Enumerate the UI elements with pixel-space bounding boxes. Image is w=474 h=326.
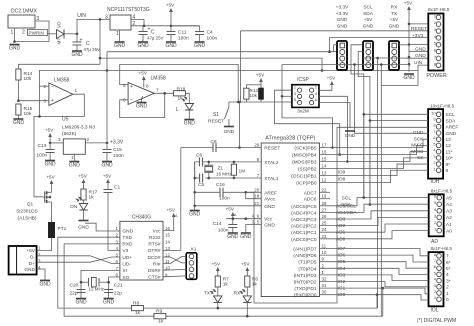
svg-text:C16: C16: [216, 182, 225, 188]
ground U5: [69, 161, 79, 163]
capacitor C6: [200, 157, 203, 166]
svg-text:23: 23: [322, 234, 327, 239]
junction: [369, 203, 372, 206]
svg-text:GND: GND: [337, 17, 348, 23]
svg-text:XI: XI: [122, 268, 127, 274]
svg-text:26: 26: [322, 214, 327, 219]
wire XTAL2: [203, 161, 262, 163]
wire R18 to LED: [186, 93, 190, 103]
svg-text:M7: M7: [57, 38, 62, 45]
svg-text:5: 5: [123, 83, 126, 88]
svg-text:3: 3: [44, 99, 47, 104]
svg-text:RESET: RESET: [264, 146, 280, 152]
connector POWER header 8x1F: [428, 14, 443, 71]
svg-text:3: 3: [105, 15, 108, 21]
svg-text:UD+: UD+: [122, 255, 132, 261]
wire UIN to POWER pin8: [418, 65, 428, 70]
wire pin2 stub: [43, 85, 49, 87]
svg-text:XO: XO: [122, 275, 129, 281]
svg-text:5: 5: [434, 270, 436, 275]
svg-text:10: 10: [322, 250, 327, 255]
svg-text:IO0: IO0: [338, 292, 346, 298]
svg-text:Vcc: Vcc: [153, 228, 162, 234]
svg-text:C1: C1: [114, 185, 120, 191]
wire IO4 to IOL: [320, 268, 429, 274]
diode VD M7: [57, 30, 65, 39]
resistor R18 1k: [173, 91, 185, 96]
svg-text:+: +: [80, 38, 83, 44]
svg-text:IO6: IO6: [338, 253, 346, 259]
svg-text:RI#: RI#: [153, 261, 161, 267]
svg-text:TX: TX: [391, 11, 398, 17]
wire CH340 gnd to ON gnd: [85, 223, 120, 231]
svg-text:1: 1: [75, 88, 78, 93]
svg-text:A0: A0: [446, 228, 452, 234]
svg-text:(AIN1)PD7: (AIN1)PD7: [293, 247, 317, 253]
junction: [363, 113, 366, 116]
junction: [408, 23, 411, 26]
ground C13: [45, 160, 55, 162]
junction: [408, 63, 411, 66]
ground S1: [224, 126, 234, 128]
wire pin4 to +5V rail: [131, 19, 144, 25]
svg-text:GND: GND: [114, 43, 126, 49]
svg-text:(INT0)PD2: (INT0)PD2: [294, 280, 317, 286]
power +5V arrow right: [408, 8, 410, 13]
capacitor C 47u 25V input: [76, 34, 78, 42]
svg-text:+5V: +5V: [364, 17, 373, 23]
svg-text:GND: GND: [189, 212, 201, 218]
wire bus to opamp1: [39, 71, 41, 87]
wire gnd rail left: [194, 162, 196, 206]
junction: [80, 281, 83, 284]
wire output to R18: [154, 92, 173, 94]
svg-text:14: 14: [322, 164, 327, 169]
svg-text:TXD: TXD: [122, 235, 132, 241]
wire U5 out +3.3V: [85, 142, 107, 144]
svg-text:GND: GND: [24, 267, 35, 273]
svg-text:RTS#: RTS#: [148, 242, 161, 248]
svg-text:2: 2: [322, 263, 325, 268]
wire IO0 to IOL: [320, 295, 429, 300]
svg-text:1: 1: [11, 30, 14, 36]
node UIN junction: [76, 33, 79, 36]
svg-text:25: 25: [322, 221, 327, 226]
wire +5V/GND vertical right: [408, 13, 410, 72]
svg-text:−: −: [51, 85, 54, 91]
wire IOREF: [409, 23, 428, 25]
header J +3.3V: [337, 41, 347, 70]
svg-text:7: 7: [434, 54, 436, 59]
wire PC1 to AD: [320, 224, 429, 232]
svg-text:(ICP)PB0: (ICP)PB0: [296, 181, 317, 187]
svg-text:CH340G: CH340G: [132, 215, 152, 221]
svg-text:AREF: AREF: [446, 125, 459, 131]
power +5V arrow RX: [246, 269, 248, 274]
wire RESET bus: [241, 30, 429, 32]
svg-text:A: A: [175, 214, 178, 218]
svg-text:+5V: +5V: [139, 71, 148, 76]
svg-text:100n: 100n: [37, 153, 48, 159]
svg-text:2: 2: [433, 160, 435, 165]
wire GND21: [195, 205, 262, 207]
junction: [193, 177, 196, 180]
svg-text:100n: 100n: [207, 36, 218, 42]
svg-text:UIN: UIN: [414, 60, 423, 66]
connector ICSP 3x2: [292, 85, 319, 108]
junction: [163, 92, 166, 95]
wire ICSP SCK stub: [282, 95, 292, 97]
svg-text:GND: GND: [75, 300, 87, 306]
svg-text:2: 2: [87, 137, 90, 142]
svg-text:DC2.1MMX: DC2.1MMX: [11, 9, 38, 15]
svg-text:1k: 1k: [252, 282, 258, 288]
svg-text:7: 7: [433, 129, 435, 134]
capacitor C4 100n: [171, 25, 200, 27]
capacitor C16: [220, 188, 223, 197]
svg-text:U5: U5: [62, 117, 69, 123]
svg-text:13: 13: [446, 137, 452, 143]
wire pin1 down: [14, 28, 16, 42]
svg-text:7: 7: [434, 258, 436, 263]
svg-text:100n: 100n: [218, 228, 229, 234]
crystal Z1 16 MHz: [208, 162, 210, 165]
svg-text:C20: C20: [70, 283, 79, 289]
svg-text:C11: C11: [178, 30, 187, 36]
svg-text:GND: GND: [71, 52, 83, 58]
svg-text:16: 16: [322, 150, 327, 155]
resistor 1M: [233, 162, 235, 164]
svg-text:22: 22: [322, 187, 327, 192]
capacitor C15 100n: [106, 143, 108, 150]
svg-text:(T0)PD4: (T0)PD4: [298, 266, 316, 272]
junction: [346, 160, 349, 163]
svg-text:R18: R18: [177, 87, 186, 93]
svg-text:(MISO)PB4: (MISO)PB4: [292, 153, 317, 159]
ground regulator: [115, 41, 125, 43]
ground crystal: [190, 210, 200, 212]
junction: [238, 101, 241, 104]
wire pin3 to gnd: [15, 21, 49, 42]
connector IOL 8x1F: [429, 252, 444, 306]
ground USB: [40, 279, 50, 281]
svg-text:0: 0: [446, 297, 449, 303]
wire D- to UD-: [37, 256, 120, 264]
wire R13 top: [245, 85, 247, 88]
svg-text:+3.3V: +3.3V: [336, 11, 349, 17]
svg-text:GND: GND: [45, 162, 57, 168]
wire reset to pin29: [239, 102, 241, 148]
svg-text:SDA: SDA: [341, 202, 352, 208]
svg-text:R9: R9: [156, 309, 162, 315]
svg-text:+5V: +5V: [78, 174, 87, 179]
ground R15: [13, 118, 23, 120]
svg-text:5*: 5*: [446, 266, 451, 272]
power +5V arrow U5: [49, 135, 51, 140]
wire DSR to X1: [163, 268, 186, 271]
svg-text:31: 31: [322, 283, 327, 288]
svg-text:PWRIN: PWRIN: [29, 30, 44, 35]
wire rail2: [166, 315, 383, 317]
wire DTR to C8: [180, 148, 182, 251]
svg-text:10k: 10k: [24, 76, 32, 82]
wire XTAL1: [205, 177, 261, 179]
wire reset cap to atmega: [216, 147, 239, 149]
svg-text:ATmega328 (TQFP): ATmega328 (TQFP): [265, 136, 315, 142]
svg-text:8: 8: [446, 168, 449, 174]
wire IO7 to IOL: [320, 249, 429, 256]
svg-text:A: A: [234, 213, 237, 217]
junction: [217, 307, 220, 310]
svg-text:7: 7: [446, 254, 449, 260]
ground C14: [228, 232, 238, 234]
svg-text:SCL: SCL: [446, 112, 456, 118]
wire divider node: [17, 80, 19, 101]
svg-text:SCL: SCL: [363, 5, 373, 11]
svg-text:C15: C15: [113, 147, 122, 153]
svg-text:12 MHz: 12 MHz: [89, 287, 105, 292]
svg-text:(SCK)PB5: (SCK)PB5: [294, 146, 316, 152]
wire UIN to regulator: [77, 19, 110, 33]
LED TX: [214, 296, 222, 303]
wire TX drop to rail2: [380, 65, 382, 317]
power +5V arrow ICSP: [331, 83, 333, 88]
svg-text:GND: GND: [69, 163, 81, 169]
svg-text:47µ 25V: 47µ 25V: [147, 36, 164, 41]
wire Vcc 4,6: [226, 218, 261, 220]
wire PB5 to IOH: [320, 139, 429, 147]
wire XI: [81, 270, 120, 298]
wire crystal right: [99, 281, 109, 283]
svg-text:7: 7: [257, 173, 260, 178]
junction: [106, 69, 109, 72]
svg-text:RESET: RESET: [208, 119, 224, 125]
svg-text:22p: 22p: [70, 291, 78, 297]
svg-text:6: 6: [434, 194, 436, 199]
svg-text:8x1F-H8,5: 8x1F-H8,5: [431, 246, 453, 251]
svg-text:RESET: RESET: [411, 26, 427, 32]
wire hdr3 pin1 to +5V: [399, 44, 409, 46]
svg-text:(ADC1)PC1: (ADC1)PC1: [291, 230, 317, 236]
junction UIN drop: [99, 18, 102, 21]
svg-text:X1: X1: [191, 247, 197, 253]
svg-text:7: 7: [156, 88, 159, 93]
svg-text:9: 9: [322, 257, 325, 262]
svg-text:1: 1: [434, 227, 436, 232]
wire node to opamp +: [18, 100, 49, 102]
svg-text:(MOSI)PB3: (MOSI)PB3: [292, 160, 317, 166]
wire op-amp2 pin5 loop to reset node: [120, 64, 239, 102]
capacitor C11 100n: [170, 26, 172, 32]
junction: [369, 119, 372, 122]
power +5V arrow Q1: [51, 182, 53, 187]
wire feedback to pin2: [40, 86, 44, 116]
wire +5V to U5 pin3: [50, 142, 63, 144]
svg-text:+5V: +5V: [404, 1, 413, 6]
svg-text:15: 15: [322, 157, 327, 162]
wire Q1 to PT1: [51, 202, 53, 222]
wire CTS to X1: [163, 275, 186, 278]
wire IO5 to IOL: [320, 262, 429, 269]
svg-text:(AIN0)PD6: (AIN0)PD6: [293, 253, 317, 259]
wire AREF detour to IOH: [246, 127, 428, 303]
svg-text:TX: TX: [204, 291, 211, 297]
svg-text:1: 1: [322, 270, 325, 275]
net label PWRIN: [28, 30, 48, 36]
ground C4: [195, 41, 205, 43]
svg-text:AD4/SDA: AD4/SDA: [336, 210, 357, 216]
power +5V arrow C1: [107, 181, 109, 186]
svg-text:AD2: AD2: [336, 223, 346, 229]
wire PWRIN to diode: [48, 33, 58, 35]
wire GND pin6: [409, 50, 428, 52]
connector AD 6x1F: [429, 194, 444, 236]
svg-text:AD1: AD1: [336, 230, 346, 236]
svg-text:5: 5: [434, 41, 436, 46]
svg-text:C14: C14: [213, 221, 222, 227]
svg-text:SCL: SCL: [342, 195, 352, 201]
svg-text:1: 1: [434, 295, 436, 300]
junction: [49, 142, 52, 145]
svg-text:GND: GND: [184, 121, 196, 127]
svg-text:RX: RX: [391, 5, 398, 11]
svg-text:100n: 100n: [113, 153, 124, 159]
regulator U5 body: [63, 139, 85, 154]
svg-text:GND: GND: [264, 223, 275, 229]
svg-text:5: 5: [434, 200, 436, 205]
junction: [143, 25, 146, 28]
svg-text:8: 8: [434, 252, 436, 257]
svg-text:ADC7: ADC7: [304, 190, 317, 196]
svg-text:GND: GND: [264, 204, 275, 210]
header J serial: [389, 41, 399, 70]
svg-text:1: 1: [116, 31, 119, 37]
svg-text:2: 2: [38, 252, 41, 257]
capacitor C1: [104, 190, 113, 193]
svg-text:(662K): (662K): [62, 131, 77, 137]
wire +3.3V pin1: [334, 44, 338, 46]
svg-text:ADC6: ADC6: [304, 197, 317, 203]
wire bus 85 to UIN corner: [381, 71, 418, 86]
power +5V arrow R17: [83, 181, 85, 186]
wire AREF: [223, 191, 261, 193]
svg-text:27: 27: [322, 207, 327, 212]
svg-text:GND: GND: [224, 129, 235, 135]
junction: [380, 63, 383, 66]
svg-text:GND: GND: [446, 131, 457, 137]
wire U5 pin1 gnd: [73, 154, 75, 161]
svg-text:D+: D+: [29, 261, 35, 267]
svg-text:GND: GND: [194, 43, 206, 49]
regulator NCP1117 body: [110, 15, 131, 30]
ground LED L: [184, 119, 194, 121]
svg-text:3: 3: [38, 258, 41, 263]
wire PC2 to AD: [320, 217, 429, 225]
svg-text:Si2301DS: Si2301DS: [16, 209, 38, 215]
wire RESET vertical: [240, 31, 242, 102]
junction: [238, 146, 241, 149]
svg-text:17: 17: [322, 143, 327, 148]
svg-text:SDA: SDA: [363, 11, 374, 17]
svg-text:10k: 10k: [24, 111, 32, 117]
svg-text:+3,3V: +3,3V: [110, 139, 124, 145]
svg-text:8: 8: [433, 123, 435, 128]
wire UIN bottom bus: [39, 70, 418, 72]
wire +3V3 riser: [328, 38, 330, 52]
junction: [193, 191, 196, 194]
svg-text:+5V: +5V: [46, 175, 55, 180]
wire +5V pin5: [409, 44, 428, 46]
wire crystal left: [81, 281, 89, 283]
svg-text:GND: GND: [165, 43, 177, 49]
svg-text:1k: 1k: [158, 319, 164, 325]
wire GND 3,5: [246, 225, 261, 234]
svg-text:16 MHz: 16 MHz: [216, 172, 232, 177]
svg-text:GND: GND: [136, 104, 148, 110]
svg-text:GND: GND: [78, 225, 89, 231]
wire SDA to IOH: [370, 120, 428, 122]
svg-text:GND: GND: [337, 23, 348, 29]
ground opamp2: [137, 102, 147, 104]
svg-text:+5V: +5V: [45, 128, 54, 133]
svg-text:+5V: +5V: [256, 73, 265, 78]
capacitor C 47u 25V output: [142, 26, 144, 32]
wire DTR out: [163, 249, 181, 251]
power +5V_A arrow: [232, 214, 234, 219]
svg-text:IOH: IOH: [431, 179, 440, 185]
wire C8 left: [181, 147, 213, 149]
resistor R13 10k: [244, 88, 249, 99]
resistor R6 1k: [245, 276, 250, 287]
junction: [99, 57, 102, 60]
svg-text:XTAL2: XTAL2: [264, 160, 279, 166]
svg-text:9: 9: [433, 117, 435, 122]
wire PC3 to AD: [320, 211, 429, 219]
wire ICSP MISO: [275, 90, 340, 154]
svg-text:11: 11: [322, 244, 327, 249]
LED ON: [79, 204, 87, 211]
diode D reset: [260, 85, 262, 88]
transistor Q1 MOSFET: [51, 187, 53, 192]
svg-text:GND: GND: [415, 53, 426, 59]
svg-text:3, 5: 3, 5: [252, 220, 260, 225]
svg-text:+5V: +5V: [166, 3, 175, 8]
wire RX drop to rail1: [377, 58, 379, 308]
ground C20: [76, 298, 86, 300]
wire PC0 to AD: [320, 231, 429, 239]
svg-text:+5V: +5V: [390, 17, 399, 23]
wire +3.3V vertical: [106, 52, 108, 142]
svg-text:GND: GND: [103, 300, 115, 306]
wire C1 to V3: [108, 193, 120, 251]
svg-text:NCP1117ST50T3G: NCP1117ST50T3G: [107, 7, 150, 13]
wire +5V rail: [131, 25, 200, 27]
svg-text:14: 14: [165, 239, 170, 244]
junction: [13, 40, 16, 43]
junction: [193, 205, 196, 208]
svg-text:ICSP: ICSP: [297, 77, 309, 83]
svg-text:IO2: IO2: [338, 279, 346, 285]
svg-text:RXD: RXD: [122, 242, 133, 248]
svg-text:6: 6: [434, 48, 436, 53]
wire AREF to AVcc: [246, 192, 262, 198]
junction: [233, 177, 236, 180]
IC U2 ATmega328 body: [261, 143, 319, 297]
svg-text:POWER: POWER: [426, 73, 446, 79]
svg-text:5: 5: [433, 141, 435, 146]
junction: [331, 146, 334, 149]
wire TXD to rail1: [58, 237, 132, 308]
